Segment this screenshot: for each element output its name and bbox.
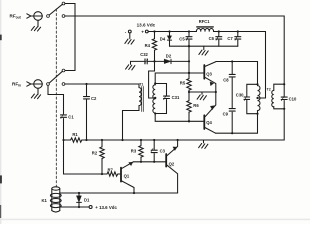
node C9 bottom bbox=[231, 132, 233, 134]
node D2 cathode junction bbox=[188, 60, 190, 62]
resistor R2 bbox=[100, 140, 104, 174]
node C5 bottom bbox=[188, 45, 190, 47]
ground (RF in jack) bbox=[31, 88, 40, 98]
node R4 top bbox=[153, 30, 155, 32]
node rail R2 bbox=[101, 139, 103, 141]
svg-text:C31: C31 bbox=[172, 95, 180, 100]
wire +13.6 V rail after choke bbox=[214, 32, 266, 99]
svg-text:R3: R3 bbox=[131, 149, 137, 154]
node rail R3 bbox=[140, 139, 142, 141]
node C8 top bbox=[231, 60, 233, 62]
relay contact K1b pivot bbox=[47, 83, 50, 86]
wire C1 to R1 bbox=[63, 119, 65, 141]
node C3 base bbox=[153, 161, 155, 163]
svg-text:K1: K1 bbox=[42, 198, 48, 203]
ground (C32) bbox=[126, 61, 135, 70]
transformer T2 secondary bbox=[272, 84, 284, 109]
svg-text:Q2: Q2 bbox=[169, 161, 175, 166]
svg-text:RFout: RFout bbox=[10, 14, 22, 20]
transformer T2 primary bbox=[258, 84, 261, 113]
node rail Q2 bbox=[177, 139, 179, 141]
relay contact K1a pivot bbox=[47, 15, 50, 18]
node T1 center tap bbox=[154, 97, 156, 99]
node Q1 emitter bbox=[133, 192, 135, 194]
main lower rail bbox=[64, 139, 71, 141]
node T1 secondary bottom bbox=[154, 112, 156, 114]
wire T1 secondary top to Q3 base bbox=[155, 73, 203, 85]
wire left column down bbox=[64, 140, 108, 174]
diode D1 bbox=[77, 193, 82, 207]
svg-text:RFC1: RFC1 bbox=[199, 19, 210, 24]
resistor R3 bbox=[139, 140, 143, 162]
svg-text:Q1: Q1 bbox=[124, 173, 130, 178]
node emitter rail left bbox=[188, 91, 190, 93]
svg-text:R1: R1 bbox=[72, 132, 78, 137]
svg-text:T2: T2 bbox=[267, 88, 271, 92]
relay contact K1b lower bbox=[62, 83, 65, 86]
svg-text:C32: C32 bbox=[140, 52, 148, 57]
wire main lower rail continued bbox=[82, 139, 284, 141]
svg-text:Q4: Q4 bbox=[206, 120, 212, 125]
relay contact K1a upper bbox=[62, 2, 65, 5]
terminal minus bbox=[125, 29, 132, 34]
switch arm K1a bbox=[49, 4, 62, 15]
wire RF output line bbox=[65, 16, 284, 83]
wire RF in to amplifier input bbox=[65, 84, 139, 88]
svg-text:13.6 Vdc: 13.6 Vdc bbox=[137, 23, 156, 28]
svg-text:C2: C2 bbox=[91, 96, 97, 101]
ground (main lower rail) bbox=[199, 140, 208, 149]
node T1 secondary top bbox=[154, 82, 156, 84]
terminal +13.6 Vdc (relay) bbox=[89, 206, 92, 209]
svg-text:R6: R6 bbox=[193, 103, 199, 108]
ground (bypass bus) bbox=[199, 46, 208, 55]
capacitor C1 bbox=[61, 114, 67, 119]
wire Q3 collector line bbox=[216, 62, 258, 85]
wire Q2 base node bbox=[133, 161, 165, 163]
node D4 top bbox=[168, 30, 170, 32]
svg-text:C7: C7 bbox=[227, 36, 233, 41]
node R3 base bbox=[140, 161, 142, 163]
relay contact K1b upper bbox=[62, 69, 65, 72]
ground (emitter rail) bbox=[197, 92, 206, 100]
svg-text:C10: C10 bbox=[289, 96, 297, 101]
transformer T1 core bbox=[142, 87, 144, 112]
node T2 secondary bottom bbox=[283, 108, 285, 110]
capacitor C5 bbox=[186, 32, 192, 47]
svg-text:R2: R2 bbox=[92, 150, 98, 155]
capacitor C9 bbox=[229, 109, 235, 134]
capacitor C31 bbox=[155, 84, 169, 114]
svg-text:D4: D4 bbox=[160, 37, 166, 42]
diode D4 bbox=[167, 32, 171, 47]
capacitor C7 bbox=[235, 32, 241, 47]
transistor Q1 bbox=[121, 162, 134, 193]
resistor R7 bbox=[107, 172, 120, 176]
node D1 bottom bbox=[78, 206, 80, 208]
svg-text:D1: D1 bbox=[84, 197, 90, 202]
wire Q4 collector line bbox=[216, 114, 258, 134]
svg-text:D2: D2 bbox=[166, 53, 172, 58]
svg-text:R4: R4 bbox=[145, 43, 151, 48]
node emitter rail right bbox=[215, 91, 217, 93]
wire bypass ground bus bbox=[170, 45, 238, 47]
svg-text:C3: C3 bbox=[160, 149, 166, 154]
node T2 center tap bbox=[256, 97, 258, 99]
transistor Q3 bbox=[204, 62, 216, 92]
node rail C2 bbox=[85, 139, 87, 141]
capacitor C2 bbox=[84, 84, 90, 140]
switch arm K1b bbox=[49, 71, 62, 83]
node Q3 base bbox=[188, 72, 190, 74]
wire T1 secondary bottom to Q4 base bbox=[155, 113, 203, 121]
RF out connector J1 bbox=[27, 12, 43, 21]
capacitor C6 bbox=[216, 32, 222, 47]
capacitor C8 bbox=[229, 62, 235, 108]
relay contact K1a lower bbox=[62, 15, 65, 18]
transistor Q4 bbox=[204, 92, 216, 133]
wire bias column bbox=[188, 46, 190, 73]
svg-text:C1: C1 bbox=[68, 114, 74, 119]
svg-text:C6: C6 bbox=[209, 36, 215, 41]
svg-text:R7: R7 bbox=[108, 167, 114, 172]
resistor R1 bbox=[71, 138, 82, 142]
node rail T1 bbox=[121, 139, 123, 141]
wire emitter rail bbox=[189, 91, 216, 93]
svg-text:+: + bbox=[141, 30, 144, 35]
wire emitter rail to relay bbox=[60, 192, 178, 194]
svg-text:Q3: Q3 bbox=[206, 72, 212, 77]
dashed mechanical link bbox=[55, 9, 57, 186]
wire RF sense tap bbox=[48, 85, 64, 113]
wire bias feed to T1 center tap bbox=[149, 61, 156, 98]
ground (supply minus) bbox=[125, 33, 134, 44]
transformer T1 primary bbox=[123, 88, 142, 140]
node T2 primary bottom bbox=[256, 113, 258, 115]
wire bypass top bbox=[65, 4, 75, 71]
svg-text:RFin: RFin bbox=[12, 82, 21, 88]
RF in connector J2 bbox=[27, 80, 43, 89]
node bias D2 junction bbox=[153, 60, 155, 62]
node T2 primary top bbox=[256, 83, 258, 85]
svg-text:C5: C5 bbox=[179, 37, 185, 42]
capacitor C10 bbox=[281, 84, 287, 140]
node T2 secondary top bbox=[283, 83, 285, 85]
svg-text:T1: T1 bbox=[139, 82, 143, 86]
svg-text:R5: R5 bbox=[180, 81, 186, 86]
wire +13.6 V rail bbox=[148, 31, 196, 33]
capacitor C3 bbox=[151, 140, 157, 162]
node Q4 base bbox=[188, 120, 190, 122]
node C7 top bbox=[237, 30, 239, 32]
svg-text:C30: C30 bbox=[236, 93, 244, 98]
node C6 top bbox=[218, 30, 220, 32]
node C5 top bbox=[188, 30, 190, 32]
svg-text:-: - bbox=[125, 29, 127, 34]
diode D2 bbox=[155, 59, 190, 63]
capacitor C30 bbox=[244, 84, 258, 113]
node rail C3 bbox=[153, 139, 155, 141]
node rail C1 bbox=[62, 139, 64, 141]
wire T2 center tap feed bbox=[258, 97, 266, 99]
node D1 top bbox=[78, 192, 80, 194]
transistor Q2 bbox=[166, 140, 177, 193]
choke RFC1 bbox=[196, 27, 213, 32]
relay coil K1 bbox=[50, 187, 61, 212]
scan edge artifacts bbox=[0, 35, 2, 218]
transformer T1 secondary bbox=[153, 85, 155, 113]
resistor R4 bbox=[152, 32, 156, 62]
resistor R6 bbox=[187, 92, 191, 121]
svg-text:C9: C9 bbox=[223, 112, 229, 117]
resistor R5 bbox=[187, 73, 191, 92]
node R2 bottom bbox=[101, 173, 103, 175]
capacitor C32 bbox=[131, 59, 155, 64]
svg-text:C8: C8 bbox=[223, 78, 229, 83]
svg-text:+ 13.6 Vdc: + 13.6 Vdc bbox=[95, 205, 117, 210]
terminal plus bbox=[141, 30, 148, 35]
ground (RF out jack) bbox=[31, 20, 40, 31]
node C2 tap bbox=[85, 83, 87, 85]
wire relay coil to +13.6 terminal bbox=[60, 206, 89, 208]
